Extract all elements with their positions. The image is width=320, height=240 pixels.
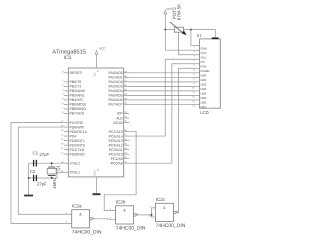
svg-text:IC2c: IC2c: [156, 197, 166, 202]
ground symbol below IC5: [93, 193, 101, 195]
svg-text:RESET\: RESET\: [70, 71, 83, 75]
IC5 right pin PA7/AD7 pin 32: [124, 103, 130, 105]
capacitor C2 plates: [34, 175, 37, 182]
IC2c input stubs: [151, 208, 155, 217]
svg-text:VEE: VEE: [201, 55, 207, 59]
svg-text:PC1/A9: PC1/A9: [111, 157, 123, 161]
IC5 left pin PB2/AIN0 pin 3: [64, 90, 69, 92]
IC5 left pin PD0/RXD pin 10: [64, 153, 69, 155]
IC5 left pin PD2/INT0 pin 12: [64, 144, 69, 146]
wire PA1/AD1 to K1 DB1: [129, 76, 195, 78]
svg-text:&: &: [79, 213, 82, 217]
svg-text:IC2b: IC2b: [116, 199, 126, 204]
svg-text:XTAL1: XTAL1: [70, 170, 80, 174]
svg-text:PB6/MISO: PB6/MISO: [70, 107, 87, 111]
svg-text:OC1B: OC1B: [113, 121, 123, 125]
wire VCC rail to pot left terminal: [165, 29, 174, 31]
IC5 GND pin 20: [96, 177, 98, 194]
wire tying IC2c inputs together: [150, 208, 152, 217]
K1 pin RS pin 4: [195, 58, 199, 60]
IC2c output bubble: [174, 211, 177, 214]
svg-text:DB5: DB5: [201, 96, 207, 100]
IC5 right pin PA1/AD1 pin 38: [124, 76, 130, 78]
IC2a input stubs: [67, 214, 71, 223]
IC U5 ATmega8515 body: [68, 68, 123, 177]
svg-text:74HC00_DIN: 74HC00_DIN: [116, 225, 146, 231]
svg-text:DB1: DB1: [201, 78, 207, 82]
svg-text:VCC: VCC: [201, 51, 208, 55]
svg-text:PD6/WR\: PD6/WR\: [70, 125, 85, 129]
IC5 right pin PC5/A13 pin 26: [124, 140, 130, 142]
svg-text:GND: GND: [201, 46, 209, 50]
wire K1 RS to PC6/A14: [129, 59, 195, 136]
IC5 left pin PD4 pin 14: [64, 135, 69, 137]
svg-text:PD7/RD\: PD7/RD\: [70, 121, 84, 125]
IC5 right pin PC1/A9 pin 22: [124, 158, 130, 160]
svg-text:PD0/RXD: PD0/RXD: [70, 152, 86, 156]
wire XTAL1 to C2 and crystal bottom: [29, 172, 64, 178]
wire pot right terminal to ground bar: [184, 30, 216, 38]
wire PA7/AD7 to K1 DB7: [129, 103, 195, 105]
wire PD6/WR to IC2a input: [18, 127, 67, 214]
svg-text:PD1/TXD: PD1/TXD: [70, 148, 85, 152]
svg-text:PA0/AD0: PA0/AD0: [109, 71, 123, 75]
K1 pin VEE pin 3: [195, 54, 199, 56]
svg-text:ALE: ALE: [116, 116, 123, 120]
svg-text:PD4: PD4: [70, 134, 77, 138]
IC5 right pin PC6/A14 pin 27: [124, 135, 130, 137]
svg-text:Vcc: Vcc: [93, 72, 96, 77]
IC5 right pin PC7/A15 pin 28: [124, 131, 130, 133]
svg-text:PC0/A8: PC0/A8: [111, 161, 123, 165]
POT2 wiper arrow: [170, 22, 182, 33]
svg-text:PA5/AD5: PA5/AD5: [109, 94, 123, 98]
svg-text:PB0/T0: PB0/T0: [70, 80, 82, 84]
wire XTAL2 to C1 and crystal top: [29, 162, 64, 164]
IC2b input stubs: [111, 210, 115, 219]
capacitor C1 plates: [34, 160, 37, 167]
IC5 right pin PC2/A10 pin 23: [124, 153, 130, 155]
IC5 right pin PA0/AD0 pin 39: [124, 72, 130, 74]
K1 pin Enable pin 6: [195, 67, 199, 69]
svg-text:PC6/A14: PC6/A14: [109, 134, 123, 138]
IC5 left pin PB3/AIN1 pin 4: [64, 94, 69, 96]
wire IC2a output to IC2b input: [92, 218, 111, 221]
svg-text:PB5/MOSI: PB5/MOSI: [70, 103, 87, 107]
svg-text:67W-5K: 67W-5K: [176, 3, 181, 20]
wire IC2b output to IC2c input tie: [136, 214, 151, 216]
IC2a output bubble: [90, 218, 93, 221]
wire PC7/A15 to IC2b input: [104, 132, 136, 211]
svg-text:DB7: DB7: [201, 105, 207, 109]
IC5 left pin PB1/T1 pin 2: [64, 85, 69, 87]
K1 pin DB5 pin 12: [195, 94, 199, 96]
svg-text:PB7/SCK: PB7/SCK: [70, 112, 85, 116]
junction GND rail: [190, 29, 192, 31]
IC5 VCC pin 40 with power arrow: [96, 54, 98, 68]
svg-text:C1: C1: [33, 151, 39, 156]
IC5 left pin PD3/INT1 pin 13: [64, 140, 69, 142]
crystal Q1: [51, 163, 53, 167]
IC5 left pin PB4/SS\ pin 5: [64, 99, 69, 101]
svg-text:PB2/AIN0: PB2/AIN0: [70, 89, 85, 93]
junction crystal bottom node: [51, 177, 53, 179]
svg-text:PA7/AD7: PA7/AD7: [109, 103, 123, 107]
K1 pin DB3 pin 10: [195, 85, 199, 87]
K1 pin DB1 pin 8: [195, 76, 199, 78]
svg-text:27pF: 27pF: [37, 181, 47, 186]
svg-text:DB6: DB6: [201, 101, 207, 105]
IC5 left pin PD7/RD\ pin 17: [64, 122, 69, 124]
IC5 right pin ALE pin 31: [124, 117, 130, 119]
svg-text:PC7/A15: PC7/A15: [109, 130, 123, 134]
IC5 left pin PD1/TXD pin 11: [64, 149, 69, 151]
wire PA5/AD5 to K1 DB5: [129, 94, 195, 96]
svg-text:K1: K1: [197, 33, 203, 38]
svg-text:PC3/A11: PC3/A11: [109, 148, 123, 152]
IC5 left pin RESET\ pin 9: [64, 72, 69, 74]
IC5 left pin PB5/MOSI pin 6: [64, 103, 69, 105]
svg-text:R/W: R/W: [201, 64, 207, 68]
svg-text:27pF: 27pF: [39, 152, 49, 157]
ground symbol above K1: [212, 37, 219, 39]
wire PA3/AD3 to K1 DB3: [129, 85, 195, 87]
IC5 right pin PA6/AD6 pin 33: [124, 99, 130, 101]
svg-text:PD5/OC1A: PD5/OC1A: [70, 130, 88, 134]
svg-text:PC2/A10: PC2/A10: [109, 152, 123, 156]
svg-text:DB3: DB3: [201, 87, 207, 91]
K1 pin GND pin 1: [195, 45, 199, 47]
wire PA0/AD0 to K1 DB0: [129, 72, 195, 74]
potentiometer POT2 body: [174, 27, 183, 32]
svg-text:PC5/A13: PC5/A13: [109, 139, 123, 143]
IC2b output bubble: [134, 214, 137, 217]
svg-text:PD2/INT0: PD2/INT0: [70, 143, 85, 147]
IC5 left pin PD6/WR\ pin 16: [64, 126, 69, 128]
IC5 right pin PC4/A12 pin 25: [124, 144, 130, 146]
K1 pin VCC pin 2: [195, 49, 199, 51]
svg-text:PB4/SS\: PB4/SS\: [70, 98, 83, 102]
IC5 right pin OC1B pin 29: [124, 122, 130, 124]
svg-text:PA1/AD1: PA1/AD1: [109, 76, 123, 80]
junction VCC rail: [164, 29, 166, 31]
svg-text:PA3/AD3: PA3/AD3: [109, 85, 123, 89]
ground symbol below crystal: [24, 195, 33, 197]
svg-text:VCC: VCC: [99, 46, 106, 50]
IC5 right pin ICP pin 30: [124, 112, 130, 114]
junction at IC2c input tie: [151, 214, 153, 216]
svg-text:LCD: LCD: [200, 110, 209, 115]
IC5 left pin PB7/SCK pin 8: [64, 112, 69, 114]
IC5 left pin XTAL2 pin 18: [64, 162, 69, 164]
K1 pin R/W pin 5: [195, 63, 199, 65]
svg-text:C2: C2: [30, 169, 36, 174]
wire K1 Enable to IC2c output: [176, 68, 195, 212]
svg-text:IC5: IC5: [64, 55, 72, 61]
wire PA4/AD4 to K1 DB4: [129, 90, 195, 92]
K1 pin DB2 pin 9: [195, 81, 199, 83]
svg-text:DB0: DB0: [201, 73, 207, 77]
K1 pin DB6 pin 13: [195, 99, 199, 101]
svg-text:PA6/AD6: PA6/AD6: [109, 98, 123, 102]
IC5 right pin PA4/AD4 pin 35: [124, 90, 130, 92]
IC5 right pin PC0/A8 pin 21: [124, 162, 130, 164]
wire K1 R/W to PC0/A8: [129, 64, 195, 163]
supply VCC symbol near POT2: [164, 13, 166, 29]
svg-text:XTAL2: XTAL2: [70, 161, 80, 165]
svg-text:PA2/AD2: PA2/AD2: [109, 80, 123, 84]
IC5 right pin PC3/A11 pin 24: [124, 149, 130, 151]
wire GND rail down to K1 GND pin: [191, 30, 195, 46]
svg-text:ICP: ICP: [117, 112, 124, 116]
wire ground rail left of crystal: [28, 163, 30, 195]
svg-text:4MHz: 4MHz: [52, 178, 57, 189]
svg-text:PB1/T1: PB1/T1: [70, 85, 82, 89]
IC5 right pin PA3/AD3 pin 36: [124, 85, 130, 87]
svg-text:PD3/INT1: PD3/INT1: [70, 139, 85, 143]
IC5 left pin PB0/T0 pin 1: [64, 81, 69, 83]
IC5 left pin PD5/OC1A pin 15: [64, 131, 69, 133]
wire VCC down to K1 VCC pin: [165, 30, 195, 51]
svg-text:&: &: [163, 206, 166, 210]
IC5 left pin PB6/MISO pin 7: [64, 108, 69, 110]
svg-text:74HC00_DIN: 74HC00_DIN: [72, 229, 102, 235]
NAND gate IC2c body: [156, 203, 174, 221]
wire PD7/RD to IC2a input: [11, 123, 67, 224]
svg-text:RS: RS: [201, 60, 205, 64]
svg-text:PB3/AIN1: PB3/AIN1: [70, 94, 85, 98]
svg-text:Enable: Enable: [201, 69, 211, 73]
svg-text:GND: GND: [93, 170, 96, 176]
wire PA6/AD6 to K1 DB6: [129, 99, 195, 101]
junction C2 at ground rail: [28, 177, 30, 179]
svg-text:Q1: Q1: [56, 164, 61, 170]
K1 pin DB7 pin 14: [195, 103, 199, 105]
svg-text:DB2: DB2: [201, 82, 207, 86]
svg-text:IC2a: IC2a: [72, 203, 82, 208]
connector K1 body: [200, 39, 221, 108]
svg-text:PC4/A12: PC4/A12: [109, 143, 123, 147]
svg-text:74HC00_DIN: 74HC00_DIN: [156, 223, 186, 229]
IC5 right pin PA5/AD5 pin 34: [124, 94, 130, 96]
NAND gate IC2b body: [116, 206, 134, 224]
wire PA2/AD2 to K1 DB2: [129, 81, 195, 83]
junction crystal top node: [51, 162, 53, 164]
IC5 left pin XTAL1 pin 19: [64, 171, 69, 173]
K1 pin DB0 pin 7: [195, 72, 199, 74]
NAND gate IC2a body: [72, 210, 90, 228]
IC5 right pin PA2/AD2 pin 37: [124, 81, 130, 83]
svg-text:DB4: DB4: [201, 91, 207, 95]
K1 pin DB4 pin 11: [195, 90, 199, 92]
svg-text:PA4/AD4: PA4/AD4: [109, 89, 123, 93]
wire pot wiper to K1 VEE pin: [179, 32, 196, 55]
